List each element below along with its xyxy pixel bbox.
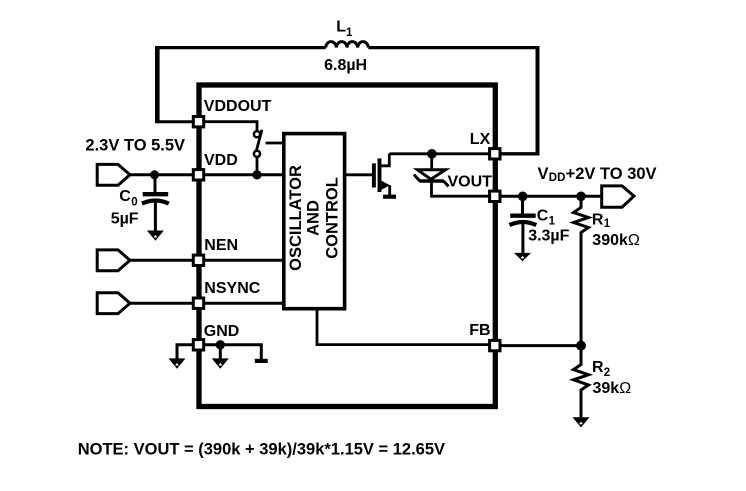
svg-text:DD: DD [549,172,566,184]
svg-text:V: V [538,165,549,183]
wire top horizontal right of L1 [368,46,539,49]
svg-text:C: C [119,188,131,205]
pin VDD [193,170,203,180]
connector arrow VDD input [97,164,130,185]
svg-text:R: R [592,212,604,229]
svg-text:5µF: 5µF [111,211,139,228]
svg-text:R: R [592,359,604,376]
svg-text:NSYNC: NSYNC [204,280,260,297]
wire top horizontal left of L1 [155,46,325,49]
wire switch to VDD net [256,157,259,175]
svg-text:VOUT: VOUT [448,173,493,190]
pin GND [193,340,203,350]
wire top-right vertical [536,46,540,154]
svg-text:390kΩ: 390kΩ [592,232,640,249]
wire drain to LX [389,152,495,155]
inductor L1 [326,42,369,48]
svg-text:AND: AND [305,200,323,236]
svg-text:C: C [537,207,549,224]
ground below C1 [514,253,531,261]
svg-text:VDDOUT: VDDOUT [204,98,272,115]
connector arrow output [602,186,634,207]
svg-text:2: 2 [604,367,610,379]
wire NEN [128,259,284,262]
ground bar at Q1 source [383,195,396,199]
svg-text:FB: FB [469,322,490,339]
capacitor C0 [154,175,157,193]
ground bar right [255,359,268,363]
wire FB external [495,344,581,347]
pin LX [490,149,500,159]
node on GND net [216,340,225,349]
capacitor C1 [521,196,524,214]
svg-text:VDD: VDD [204,152,238,169]
svg-text:LX: LX [470,131,491,148]
switch S1 [254,131,260,137]
transistor Q1 [372,163,376,187]
svg-text:NOTE: VOUT = (390k + 39k)/39k*: NOTE: VOUT = (390k + 39k)/39k*1.15V = 12… [78,440,445,458]
svg-text:L: L [336,19,346,36]
svg-text:3.3µF: 3.3µF [528,227,569,244]
svg-text:GND: GND [204,323,240,340]
svg-text:+2V TO 30V: +2V TO 30V [566,165,657,183]
wire gate [345,173,372,176]
svg-text:0: 0 [131,196,137,208]
ground below C0 [147,231,164,241]
resistor R2 [574,346,589,418]
node at diode top [427,149,437,159]
wire to LX pin [495,152,540,155]
resistor R1 [574,196,589,345]
svg-text:1: 1 [549,216,556,228]
node switch on VDD wire [252,170,261,179]
switch control line [266,142,284,145]
wire top-left vertical [155,46,160,123]
pin FB [490,340,500,350]
svg-text:39kΩ: 39kΩ [593,380,632,397]
node FB [576,341,586,351]
pin NEN [193,255,203,265]
wire from VDDOUT pin to switch [199,122,258,131]
pin NSYNC [193,298,203,308]
wire FB internal from oscillator [317,309,495,345]
pin VOUT [490,191,500,201]
pin VDDOUT [193,117,203,127]
wire GND right branch [199,345,262,359]
svg-text:CONTROL: CONTROL [323,177,341,259]
connector arrow NSYNC input [97,293,130,314]
oscillator block [284,134,345,309]
node at C1 [518,192,528,202]
ground arrow middle [212,358,229,368]
svg-text:2.3V TO 5.5V: 2.3V TO 5.5V [85,137,185,155]
wire NSYNC [128,302,284,305]
ground below R2 [573,417,590,427]
ground arrow left [169,358,186,368]
node at R1 [576,192,586,202]
diode D1 [430,154,433,169]
svg-text:OSCILLATOR: OSCILLATOR [287,165,305,271]
wire VOUT to output [495,195,603,198]
wire from VDDOUT pin left to top loop [157,120,204,123]
wire input to VDD pin [128,173,284,176]
svg-text:6.8µH: 6.8µH [324,57,367,74]
wire GND middle stub [219,345,222,359]
node at C0 [150,170,159,179]
IC body U1 [199,85,495,407]
svg-text:1: 1 [604,218,611,230]
wire GND left branch [177,345,199,359]
connector arrow NEN input [97,250,130,271]
svg-text:NEN: NEN [204,237,238,254]
svg-text:1: 1 [346,27,353,39]
